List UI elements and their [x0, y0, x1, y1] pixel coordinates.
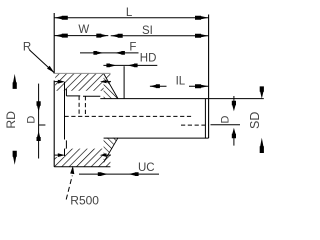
svg-text:W: W — [78, 24, 89, 36]
svg-text:L: L — [126, 7, 133, 19]
svg-text:SI: SI — [142, 25, 153, 37]
svg-text:HD: HD — [140, 52, 157, 64]
svg-text:R: R — [23, 41, 31, 53]
svg-text:F: F — [129, 42, 136, 54]
svg-text:D: D — [26, 116, 38, 124]
svg-text:D: D — [220, 115, 232, 123]
svg-text:R500: R500 — [70, 193, 99, 207]
svg-text:UC: UC — [138, 162, 155, 174]
svg-text:RD: RD — [4, 111, 18, 129]
svg-text:SD: SD — [248, 112, 262, 129]
svg-text:IL: IL — [176, 76, 186, 88]
